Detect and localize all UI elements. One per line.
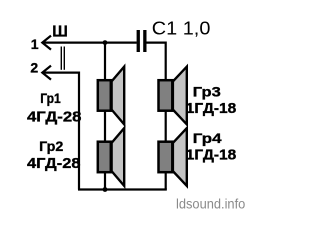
svg-text:1: 1	[31, 36, 39, 52]
svg-text:Гр2: Гр2	[39, 138, 63, 154]
terminal 2 label	[30, 60, 38, 76]
svg-text:C1 1,0: C1 1,0	[152, 18, 211, 38]
speaker Гр1 symbol	[98, 67, 124, 125]
svg-text:4ГД-28: 4ГД-28	[27, 155, 81, 172]
terminal 1 label	[31, 36, 39, 52]
wire: middle column vertical	[104, 43, 106, 190]
svg-text:1ГД-18: 1ГД-18	[186, 147, 237, 164]
label 1ГД-18 (Гр3)	[186, 100, 237, 117]
connector Ш symbol	[52, 24, 68, 41]
svg-text:ldsound.info: ldsound.info	[176, 197, 245, 212]
label Гр2	[39, 138, 63, 154]
terminal 2 arrow	[42, 66, 51, 80]
label Гр4	[193, 130, 222, 146]
svg-text:Гр1: Гр1	[40, 90, 61, 106]
speaker Гр2 symbol	[98, 128, 124, 186]
wire: capacitor to right column with corner	[147, 43, 166, 190]
label 4ГД-28 (Гр1)	[27, 109, 82, 126]
svg-text:4ГД-28: 4ГД-28	[27, 109, 82, 126]
label 1ГД-18 (Гр4)	[186, 147, 237, 164]
connector jack double line	[61, 47, 64, 70]
label C1 1,0	[152, 18, 211, 38]
speaker Гр3 symbol	[159, 67, 187, 125]
svg-text:Гр3: Гр3	[193, 83, 221, 99]
label Гр1	[40, 90, 61, 106]
svg-text:1ГД-18: 1ГД-18	[186, 100, 237, 117]
terminal 1 arrow	[42, 36, 51, 50]
wire: top horizontal from terminal 1 to capacitor	[43, 41, 137, 43]
svg-text:Гр4: Гр4	[193, 130, 222, 146]
speaker Гр4 symbol	[159, 128, 187, 186]
svg-text:Ш: Ш	[52, 24, 68, 41]
wire: terminal 2 horizontal and left drop	[43, 73, 79, 190]
watermark ldsound.info	[176, 197, 245, 212]
wire: bottom horizontal	[78, 188, 167, 190]
svg-text:2: 2	[30, 60, 38, 76]
label Гр3	[193, 83, 221, 99]
label 4ГД-28 (Гр2)	[27, 155, 81, 172]
capacitor C1	[137, 30, 147, 52]
node: top junction dot	[103, 40, 108, 45]
node: bottom junction dot	[103, 187, 108, 192]
